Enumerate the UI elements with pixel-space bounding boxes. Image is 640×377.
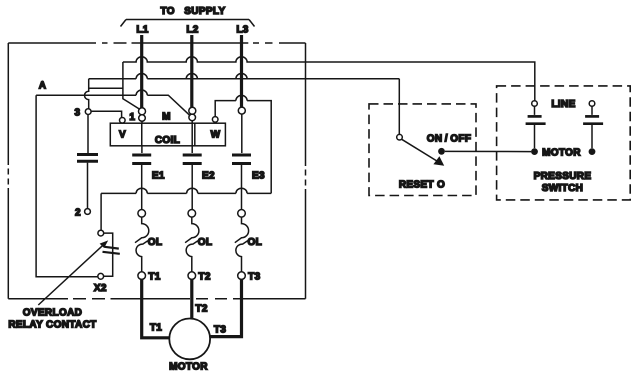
svg-text:T2: T2 — [195, 304, 207, 315]
svg-text:W: W — [211, 130, 221, 141]
supply bracket — [121, 20, 255, 27]
svg-text:OL: OL — [148, 237, 163, 248]
svg-text:MOTOR: MOTOR — [169, 362, 208, 373]
svg-text:T1: T1 — [150, 323, 162, 334]
main contact E1 — [132, 155, 151, 209]
svg-text:L1: L1 — [136, 25, 148, 36]
svg-text:OVERLOAD: OVERLOAD — [23, 308, 82, 319]
terminal T3 — [238, 272, 246, 280]
L3 to main contact — [241, 114, 243, 153]
enclosure dash-dot border — [8, 43, 305, 299]
svg-text:X2: X2 — [94, 283, 107, 294]
overload heater OL3 — [235, 210, 249, 272]
wire H1 control tap to pressure switch LINE — [123, 57, 535, 109]
supply line L1 — [132, 35, 249, 108]
switch contact dot — [438, 148, 445, 155]
svg-text:3: 3 — [75, 108, 81, 119]
motor M1 — [169, 319, 210, 360]
pressure switch pole 2 — [583, 101, 603, 149]
svg-text:T1: T1 — [148, 272, 160, 283]
pressure switch motor dot 1 — [531, 148, 538, 155]
wire W to heater bus — [215, 95, 271, 193]
svg-text:RESET O: RESET O — [399, 180, 445, 191]
switch blade ON/OFF — [402, 139, 445, 166]
motor lead T1 — [142, 279, 169, 337]
wire terminal 3 to V — [91, 111, 122, 117]
pressure switch pole 1 — [526, 101, 546, 149]
auxiliary branch 3 to 2 with contact — [77, 115, 98, 209]
svg-text:T3: T3 — [248, 272, 260, 283]
svg-text:OL: OL — [198, 237, 213, 248]
L2 through coil box to main contact — [191, 121, 193, 153]
pressure switch motor dot 2 — [589, 148, 596, 155]
switch pivot — [397, 134, 403, 140]
L1 through coil box to main contact — [141, 121, 143, 153]
pressure switch box — [497, 86, 631, 200]
svg-text:T2: T2 — [198, 272, 210, 283]
svg-text:M: M — [162, 112, 171, 123]
terminal T2 — [188, 272, 196, 280]
wire bus to overload contact — [100, 193, 102, 230]
svg-text:E3: E3 — [252, 171, 265, 182]
contact M on L1 — [139, 108, 146, 121]
motor lead T2 — [190, 279, 193, 318]
svg-text:ON / OFF: ON / OFF — [427, 134, 472, 145]
svg-text:LINE: LINE — [551, 99, 575, 110]
wire A / H3 — [36, 90, 190, 277]
svg-text:RELAY CONTACT: RELAY CONTACT — [8, 320, 96, 331]
svg-text:MOTOR: MOTOR — [542, 148, 581, 159]
contact M on L3 — [238, 107, 245, 114]
svg-text:TO SUPPLY: TO SUPPLY — [161, 6, 226, 17]
main contact E2 — [183, 155, 202, 209]
svg-text:A: A — [39, 81, 47, 92]
svg-text:E1: E1 — [152, 171, 165, 182]
terminal 2 — [85, 209, 91, 215]
svg-text:PRESSURE: PRESSURE — [534, 171, 592, 182]
svg-text:L2: L2 — [186, 25, 198, 36]
overload heater OL1 — [135, 210, 149, 272]
svg-text:T3: T3 — [214, 325, 226, 336]
svg-text:1: 1 — [129, 112, 135, 123]
contact M on L2 — [189, 107, 196, 120]
svg-text:SWITCH: SWITCH — [542, 183, 584, 194]
terminal T1 — [138, 272, 146, 280]
wire H2 to ON/OFF switch — [85, 73, 400, 134]
overload relay contact — [98, 230, 120, 279]
main contact E3 — [232, 155, 251, 209]
supply line L3 — [240, 35, 243, 107]
svg-text:2: 2 — [75, 208, 81, 219]
svg-text:COIL: COIL — [155, 135, 180, 146]
supply line L2 — [190, 35, 193, 107]
wire switch to pressure switch motor terminal — [445, 150, 531, 152]
callout arrow — [38, 240, 108, 305]
terminal 3 — [85, 109, 91, 115]
motor lead T3 — [210, 279, 241, 336]
svg-text:E2: E2 — [202, 171, 215, 182]
coil box V COIL W — [110, 123, 225, 146]
heater return bus — [101, 188, 271, 193]
svg-text:OL: OL — [248, 237, 263, 248]
terminal W — [212, 117, 218, 123]
reset box — [369, 104, 476, 196]
terminal V — [120, 118, 126, 124]
svg-text:V: V — [119, 130, 126, 141]
svg-text:L3: L3 — [236, 25, 248, 36]
overload heater OL2 — [185, 210, 199, 272]
